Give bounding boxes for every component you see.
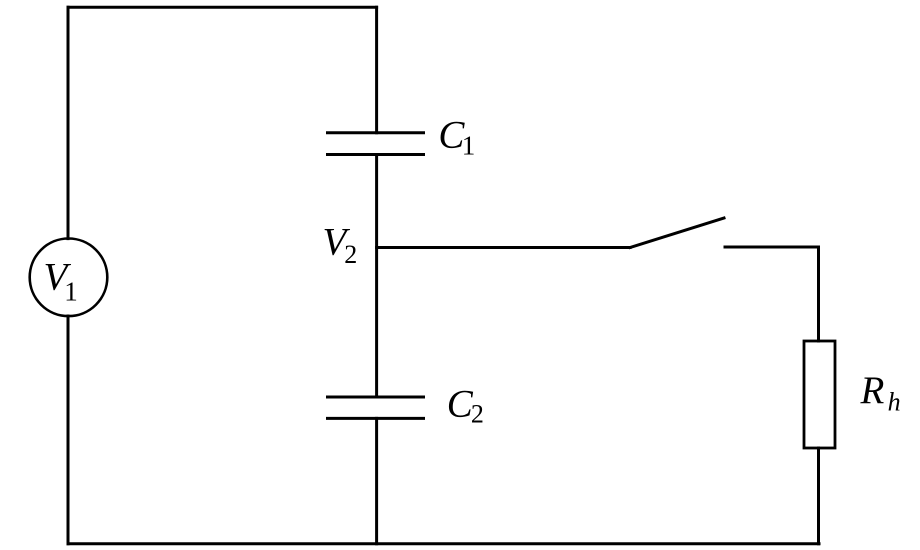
wire right rail lower bbox=[817, 448, 820, 544]
capacitor C2 bbox=[328, 397, 424, 418]
svg-text:1: 1 bbox=[462, 131, 476, 161]
wire C2 to bottom bbox=[375, 418, 378, 543]
svg-text:h: h bbox=[888, 387, 901, 416]
svg-text:R: R bbox=[860, 369, 885, 412]
wire C1 to C2 (through node V2) bbox=[375, 155, 378, 398]
wire node V2 to switch bbox=[377, 246, 630, 249]
voltage source V1 circle bbox=[30, 238, 108, 316]
wire right rail upper (to R_h) bbox=[817, 247, 820, 341]
resistor R_h body bbox=[804, 341, 835, 448]
wire left rail bottom (V1 bottom to bottom-left corner) bbox=[67, 316, 70, 544]
label C1 bbox=[438, 113, 475, 160]
wire switch right terminal bbox=[725, 246, 819, 249]
capacitor C1 bbox=[328, 133, 424, 155]
wire top to C1 bbox=[375, 7, 378, 132]
label V2 bbox=[323, 220, 358, 269]
svg-text:2: 2 bbox=[471, 400, 484, 429]
label Rh bbox=[860, 369, 901, 416]
label V1 bbox=[44, 256, 78, 307]
svg-text:2: 2 bbox=[344, 240, 357, 269]
switch blade (open) bbox=[630, 218, 724, 248]
wire bottom horizontal bbox=[68, 542, 819, 545]
svg-text:1: 1 bbox=[64, 276, 78, 306]
svg-text:C: C bbox=[447, 382, 474, 425]
label C2 bbox=[447, 382, 484, 428]
wire left rail top (V1 top to top-left corner) bbox=[67, 7, 70, 238]
wire top horizontal bbox=[68, 6, 377, 9]
